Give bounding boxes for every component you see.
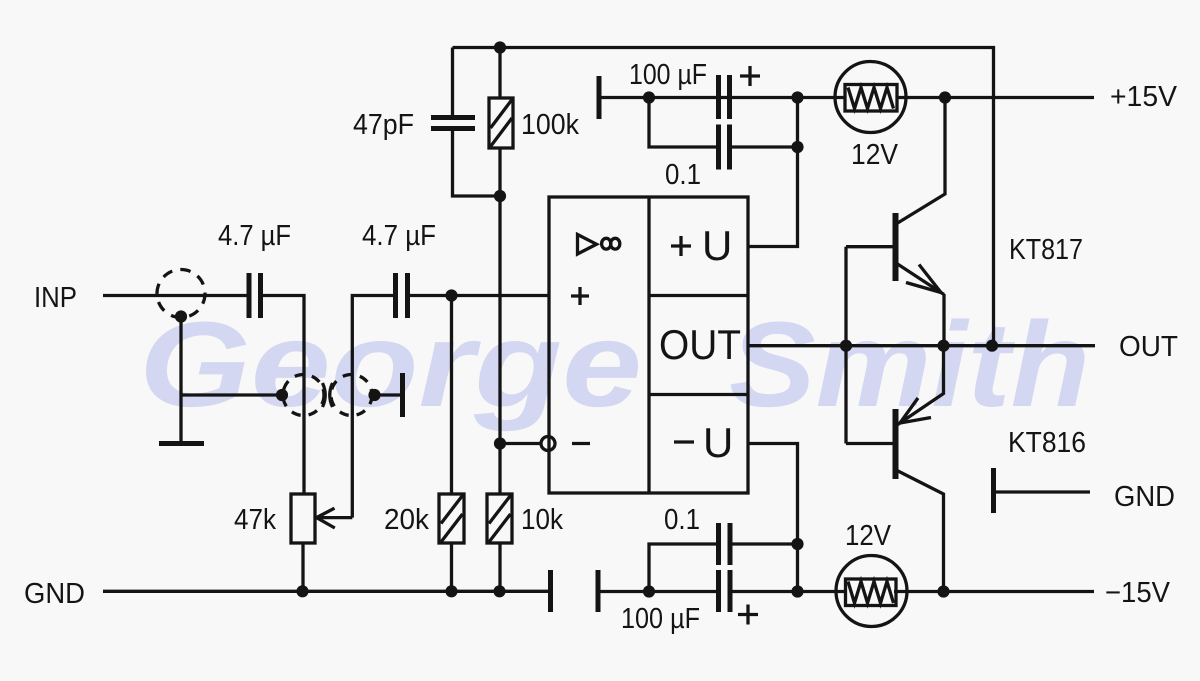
junction dot on contact: [175, 310, 187, 322]
wire connector pin2 up to C2: [352, 296, 394, 518]
op-amp cell line 1: [649, 294, 748, 297]
transistor Q1 emitter arrow: [906, 265, 941, 293]
connector contact circle (input jack): [157, 270, 205, 318]
wire +15V rail: [601, 96, 1094, 99]
svg-text:U: U: [703, 419, 733, 466]
junction dot: [791, 141, 803, 153]
op-amp U1 body: [549, 197, 748, 493]
junction dot 10k: [493, 585, 505, 597]
junction dot below 100k: [494, 190, 506, 202]
junction dot 20k: [445, 585, 457, 597]
svg-text:0.1: 0.1: [664, 504, 700, 536]
resistor R3 10k body: [487, 494, 512, 543]
wire C1 to connector pin 1: [263, 296, 304, 495]
wire C2 to op-amp + input: [410, 294, 549, 297]
capacitor C7 0.1 plates: [719, 523, 731, 565]
svg-text:+15V: +15V: [1110, 81, 1178, 113]
svg-text:OUT: OUT: [1119, 331, 1178, 363]
junction dot minus input: [494, 437, 506, 449]
svg-text:George: George: [139, 296, 642, 432]
transistor Q2 base bar: [893, 409, 899, 479]
svg-text:−15V: −15V: [1105, 577, 1171, 609]
junction dot feedback-output: [986, 340, 998, 352]
wire 20k bottom: [450, 543, 453, 591]
terminal plate GND right: [991, 468, 996, 513]
resistor R4 100k body: [489, 98, 513, 148]
wire op-amp output rail: [748, 344, 1095, 347]
label +U: [671, 236, 691, 256]
wire 0.1 top branch: [649, 98, 798, 148]
lamp HL1 12V body: [845, 85, 897, 112]
label -U: [674, 440, 694, 443]
op-amp inverting input circle: [541, 437, 555, 451]
svg-text:INP: INP: [34, 282, 77, 314]
junction dot: [791, 538, 803, 550]
capacitor C2 4.7uF plates: [396, 273, 408, 318]
svg-text:100 µF: 100 µF: [629, 59, 707, 91]
potentiometer wiper arm with arrow: [318, 516, 352, 519]
polarity + bottom cap: [738, 605, 758, 625]
resistor R2 20k body: [439, 494, 464, 543]
wire +U supply: [748, 98, 798, 247]
junction dot: [937, 585, 949, 597]
terminal plate +15V rail: [597, 76, 602, 119]
resistor 100k hatch: [491, 100, 513, 147]
wire 47k bottom to GND rail: [301, 543, 304, 591]
transistor Q1 base bar: [893, 213, 899, 281]
terminal plate -15V rail start: [596, 570, 601, 612]
svg-text:4.7 µF: 4.7 µF: [362, 220, 436, 252]
svg-text:U: U: [702, 222, 732, 269]
svg-text:12V: 12V: [851, 139, 899, 171]
terminal plate GND rail end: [548, 570, 553, 612]
wire 0.1 bottom branch: [649, 544, 798, 592]
junction dot: [791, 585, 803, 597]
svg-text:GND: GND: [1114, 481, 1175, 513]
wire contact shield to connector: [181, 393, 282, 396]
connector contact circle c1: [283, 375, 324, 416]
op-amp infinity symbol: [602, 238, 611, 249]
wire base junction vertical: [844, 247, 847, 444]
wire -U supply: [748, 444, 798, 593]
svg-text:KT816: KT816: [1008, 427, 1086, 459]
svg-text:KT817: KT817: [1009, 234, 1083, 266]
capacitor C6 100uF plates: [719, 570, 731, 612]
transistor Q2 collector: [897, 471, 944, 592]
junction dot: [791, 91, 803, 103]
wire contact to terminal: [375, 393, 401, 396]
transistor Q2 emitter arrow: [900, 398, 931, 423]
wire contact to ground: [179, 316, 182, 443]
transistor Q1 base wire: [846, 245, 893, 248]
svg-text:20k: 20k: [384, 504, 429, 536]
capacitor C4 100uF plates: [719, 75, 730, 119]
svg-text:10k: 10k: [521, 504, 563, 536]
junction dot: [643, 91, 655, 103]
connector contact circle c2: [331, 375, 372, 416]
svg-text:4.7 µF: 4.7 µF: [218, 220, 291, 252]
junction dot right contact: [368, 389, 380, 401]
wire GND right stub: [995, 490, 1090, 493]
connector mating arcs: [323, 383, 333, 407]
capacitor C5 0.1 plates: [719, 125, 730, 170]
capacitor C3 47pF plates: [431, 118, 475, 129]
op-amp + input sign: [571, 287, 589, 305]
wire minus input: [500, 442, 540, 445]
op-amp divider: [647, 197, 650, 493]
wire top feedback rail: [453, 48, 994, 347]
svg-text:47k: 47k: [234, 504, 276, 536]
svg-text:100 µF: 100 µF: [621, 603, 700, 635]
junction dot emitters-output: [937, 340, 949, 352]
transistor Q1 emitter: [896, 263, 944, 346]
capacitor C1 4.7uF plates: [249, 273, 261, 318]
junction dot bases-output: [840, 340, 852, 352]
junction dot top feedback: [494, 41, 506, 53]
op-amp - input sign: [572, 442, 590, 445]
terminal plate: [400, 373, 405, 417]
wire INP line: [103, 294, 247, 297]
junction dot: [939, 91, 951, 103]
wire 20k top: [450, 296, 453, 495]
junction dot: [276, 389, 288, 401]
op-amp triangle symbol: [578, 235, 597, 255]
wire inverting node vertical x=500: [498, 48, 501, 592]
wire -15V rail: [600, 590, 1094, 593]
resistor 20k hatch: [441, 496, 463, 543]
svg-text:0.1: 0.1: [665, 159, 701, 191]
potentiometer R1 47k body: [291, 494, 315, 543]
transistor Q2 base wire: [846, 442, 893, 445]
lamp HL2 12V body: [846, 579, 897, 606]
svg-text:GND: GND: [24, 578, 85, 610]
transistor Q1 KT817 collector: [896, 98, 945, 225]
resistor 10k hatch: [489, 496, 511, 543]
op-amp cell line 2: [649, 393, 748, 396]
svg-text:OUT: OUT: [659, 321, 741, 368]
wire 47pF branch: [453, 48, 501, 197]
junction dot 47k: [296, 585, 308, 597]
ground bar: [159, 441, 204, 446]
polarity + top cap: [740, 66, 760, 86]
junction dot: [643, 585, 655, 597]
transistor Q2 KT816 emitter: [897, 346, 944, 425]
svg-text:47pF: 47pF: [353, 109, 414, 141]
svg-text:100k: 100k: [521, 109, 579, 141]
wire GND rail: [103, 590, 548, 593]
svg-text:12V: 12V: [845, 520, 892, 552]
junction dot at 20k top: [445, 289, 457, 301]
